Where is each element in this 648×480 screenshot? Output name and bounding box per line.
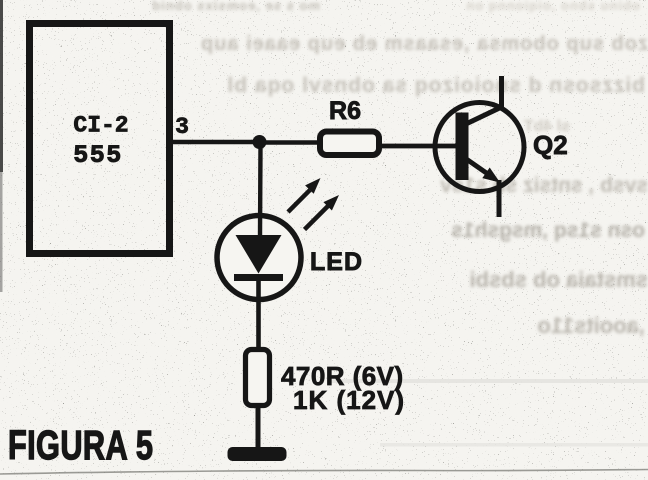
resistor R6 body (320, 132, 379, 156)
wire: junction node down to LED anode (258, 145, 263, 236)
junction node (253, 135, 267, 149)
LED circle (217, 216, 301, 300)
svg-text:mo s se ,eomsixs obnid: mo s se ,eomsixs obnid (151, 0, 320, 13)
LED light emission arrow 1 (288, 190, 310, 212)
wire: junction to R6 (258, 140, 324, 145)
svg-text:smstaia ob sbsbi: smstaia ob sbsbi (469, 267, 648, 292)
op-amp/timer IC CI-2 555 box (30, 24, 170, 254)
resistor R7 body (470R/1K) (246, 350, 270, 406)
page frame: bottom scan edge line (0, 470, 648, 475)
svg-text:bizzsosn d snoioizoq sa obnsvl: bizzsosn d snoioizoq sa obnsvl oqa bl (226, 74, 645, 97)
svg-text:zob sup obomsa ,esaasm eb eup: zob sup obomsa ,esaasm eb eup eaaei aup (200, 33, 648, 55)
svg-text:CI-2: CI-2 (73, 113, 128, 139)
svg-text:svsb , sntsiz sb s1sv: svsb , sntsiz sb s1sv (440, 174, 648, 197)
transistor Q2 circle (435, 103, 524, 192)
LED anode triangle (236, 235, 282, 274)
page frame: left border line (0, 0, 3, 172)
svg-text:obinu sbno ,oiqionnq on: obinu sbno ,oiqionnq on (465, 0, 640, 13)
svg-text:,aooits11o: ,aooits11o (537, 313, 645, 338)
svg-text:FIGURA 5: FIGURA 5 (8, 422, 153, 468)
svg-text:LED: LED (310, 248, 363, 276)
svg-text:R6: R6 (329, 97, 361, 125)
svg-text:555: 555 (73, 141, 123, 170)
wire: R7 to ground (256, 405, 261, 452)
transistor Q2 collector lead (467, 76, 502, 124)
wire: IC pin 3 to junction node (172, 140, 258, 145)
transistor Q2 base bar (456, 113, 469, 181)
transistor Q2 emitter lead with arrow (467, 160, 490, 176)
bleed-through text from page verso (decorative) (151, 0, 648, 338)
svg-text:osn s1sq ,msgsh1s: osn s1sq ,msgsh1s (451, 219, 645, 242)
svg-text:3: 3 (175, 114, 189, 140)
LED cathode bar (234, 274, 283, 281)
faint horizontal bleed streaks (decorative) (330, 379, 648, 383)
LED light emission arrow 2 (305, 206, 329, 230)
svg-text:1K (12V): 1K (12V) (293, 385, 405, 415)
wire: R6 to Q2 base (378, 144, 457, 149)
wire: LED cathode to resistor R7 (256, 281, 261, 352)
svg-text:Q2: Q2 (533, 130, 568, 160)
ground symbol (228, 447, 287, 461)
